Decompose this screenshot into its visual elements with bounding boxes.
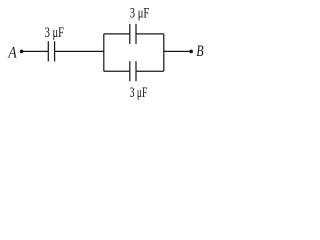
- wire: [22, 50, 49, 52]
- node A dot: [20, 50, 24, 54]
- svg-text:3 μF: 3 μF: [130, 5, 150, 21]
- wire bottom branch right: [136, 70, 164, 72]
- wire top branch left: [104, 33, 130, 35]
- capacitor C2: [130, 24, 136, 44]
- svg-text:A: A: [8, 45, 17, 62]
- wire top branch right: [136, 33, 164, 35]
- wire left vertical: [103, 34, 105, 71]
- wire right vertical: [163, 34, 165, 71]
- wire bottom branch left: [104, 70, 130, 72]
- wire: [55, 50, 104, 52]
- svg-text:3 μF: 3 μF: [45, 25, 64, 41]
- wire: [164, 50, 191, 52]
- svg-text:3 μF: 3 μF: [130, 85, 148, 101]
- capacitor C3: [130, 61, 136, 81]
- node B dot: [189, 50, 193, 54]
- capacitor C1: [48, 41, 54, 61]
- svg-text:B: B: [196, 43, 203, 60]
